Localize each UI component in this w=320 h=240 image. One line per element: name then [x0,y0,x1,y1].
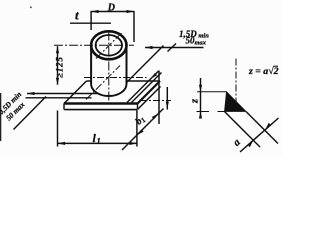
dimension D: extension right [133,11,135,42]
scan speck [30,7,32,9]
plate left top edge [64,81,87,104]
0,5D leader 45deg [14,97,47,130]
l1 arrow left [58,142,66,145]
base plate front bottom edge [64,109,137,111]
dimension a: line [240,118,279,152]
detail triangle filled [225,92,247,112]
svg-text:t: t [75,8,79,23]
cylinder left wall [90,45,92,84]
1,5D dim pair P2 [132,73,162,103]
detail 45deg line B [246,112,278,144]
l1 arrow right [129,142,137,145]
centerline 45deg through top ellipse [96,33,122,59]
b1 extension right vertical [158,71,160,125]
1,5D dim pair P1 arrow [151,73,158,79]
centerline vertical cylinder axis [108,32,110,102]
plate front right corner edge [137,104,139,110]
extra vertical V2 [166,87,168,110]
l1 extension right [136,110,138,147]
l1 extension left [57,111,59,147]
plate front top edge [64,102,138,105]
dimension l1: line [58,142,137,144]
svg-text:D: D [107,3,115,14]
base plate right bottom edge [138,87,161,110]
dimension b1: line 45deg [122,109,164,151]
dimension D arrow left [91,10,99,13]
b1 arrow lower [137,129,144,135]
centerline horizontal right of cylinder upper [84,77,147,79]
a arrow upper [265,123,271,130]
dimension D arrow right [127,10,135,13]
centerline horizontal through top ellipse [54,44,134,46]
b1 arrow upper [152,114,159,120]
detail 45deg line A [225,112,261,148]
sqrt vinculum [274,65,279,67]
detail apex line [197,91,227,93]
centerline 45deg at plate level [86,66,120,100]
plate back top edge left segment [87,80,92,82]
detail centerline vertical [235,59,237,112]
dimension >=125: line [57,46,59,84]
dimension z: line [200,78,202,118]
plate right top edge [138,81,161,104]
cylinder inner ellipse [96,35,122,56]
cylinder outer ellipse [91,31,126,59]
svg-text:z = a√2: z = a√2 [248,66,279,77]
detail bottom stub left [218,111,225,113]
a arrow lower [248,140,254,147]
detail z bottom stub [197,111,210,113]
z arrow top [199,85,202,92]
0,5D dim line H2 [26,97,92,99]
V2 arrow [166,102,169,109]
cylinder right wall [126,45,128,84]
1,5D extension E1 [127,46,164,83]
0,5D dim line H1 [27,93,98,95]
1,5D dim pair P1 [127,71,159,103]
svg-text:≥125: ≥125 [55,56,65,78]
z arrow bottom [199,112,202,119]
dimension >=125 arrow top [56,46,59,53]
1,5D leader arrow [145,46,153,49]
dimension D: line [91,11,134,13]
cylinder base arc [91,84,126,96]
plate back top edge right segment [127,80,161,82]
dimension >=125 arrow bottom [56,78,59,85]
0,5D H1 arrow [27,92,35,95]
dimension D: extension left [90,11,92,30]
leader tick 2 [168,44,177,52]
centerline horizontal right of plate [140,100,171,102]
t leader [70,22,111,24]
base plate left face edge [63,104,65,110]
wire scan smudge left edge [0,93,1,141]
1,5D leader [145,47,204,49]
